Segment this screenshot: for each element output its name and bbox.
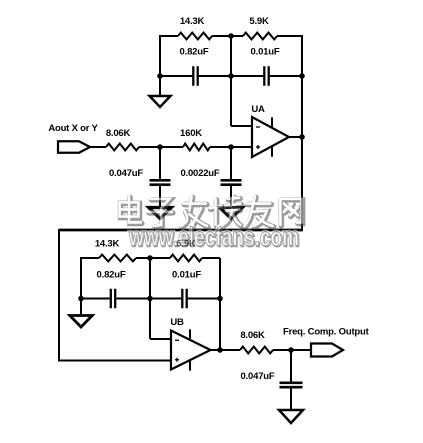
svg-text:UB: UB [170, 317, 184, 328]
svg-text:0.82uF: 0.82uF [180, 47, 209, 58]
svg-text:14.3K: 14.3K [95, 239, 120, 250]
svg-text:8.06K: 8.06K [240, 330, 265, 341]
svg-text:0.01uF: 0.01uF [251, 47, 280, 58]
svg-text:8.06K: 8.06K [106, 128, 131, 139]
svg-text:Aout X or Y: Aout X or Y [48, 123, 98, 134]
svg-text:160K: 160K [180, 128, 202, 139]
svg-text:0.01uF: 0.01uF [172, 270, 201, 281]
svg-text:5.9K: 5.9K [249, 16, 269, 27]
svg-text:14.3K: 14.3K [180, 16, 205, 27]
svg-text:0.047uF: 0.047uF [109, 168, 143, 179]
svg-text:UA: UA [251, 104, 265, 115]
svg-text:0.0022uF: 0.0022uF [180, 168, 219, 179]
svg-text:www.elecfans.com: www.elecfans.com [128, 222, 299, 252]
svg-text:0.82uF: 0.82uF [97, 270, 126, 281]
svg-text:0.047uF: 0.047uF [241, 371, 275, 382]
svg-text:Freq. Comp. Output: Freq. Comp. Output [283, 327, 370, 338]
